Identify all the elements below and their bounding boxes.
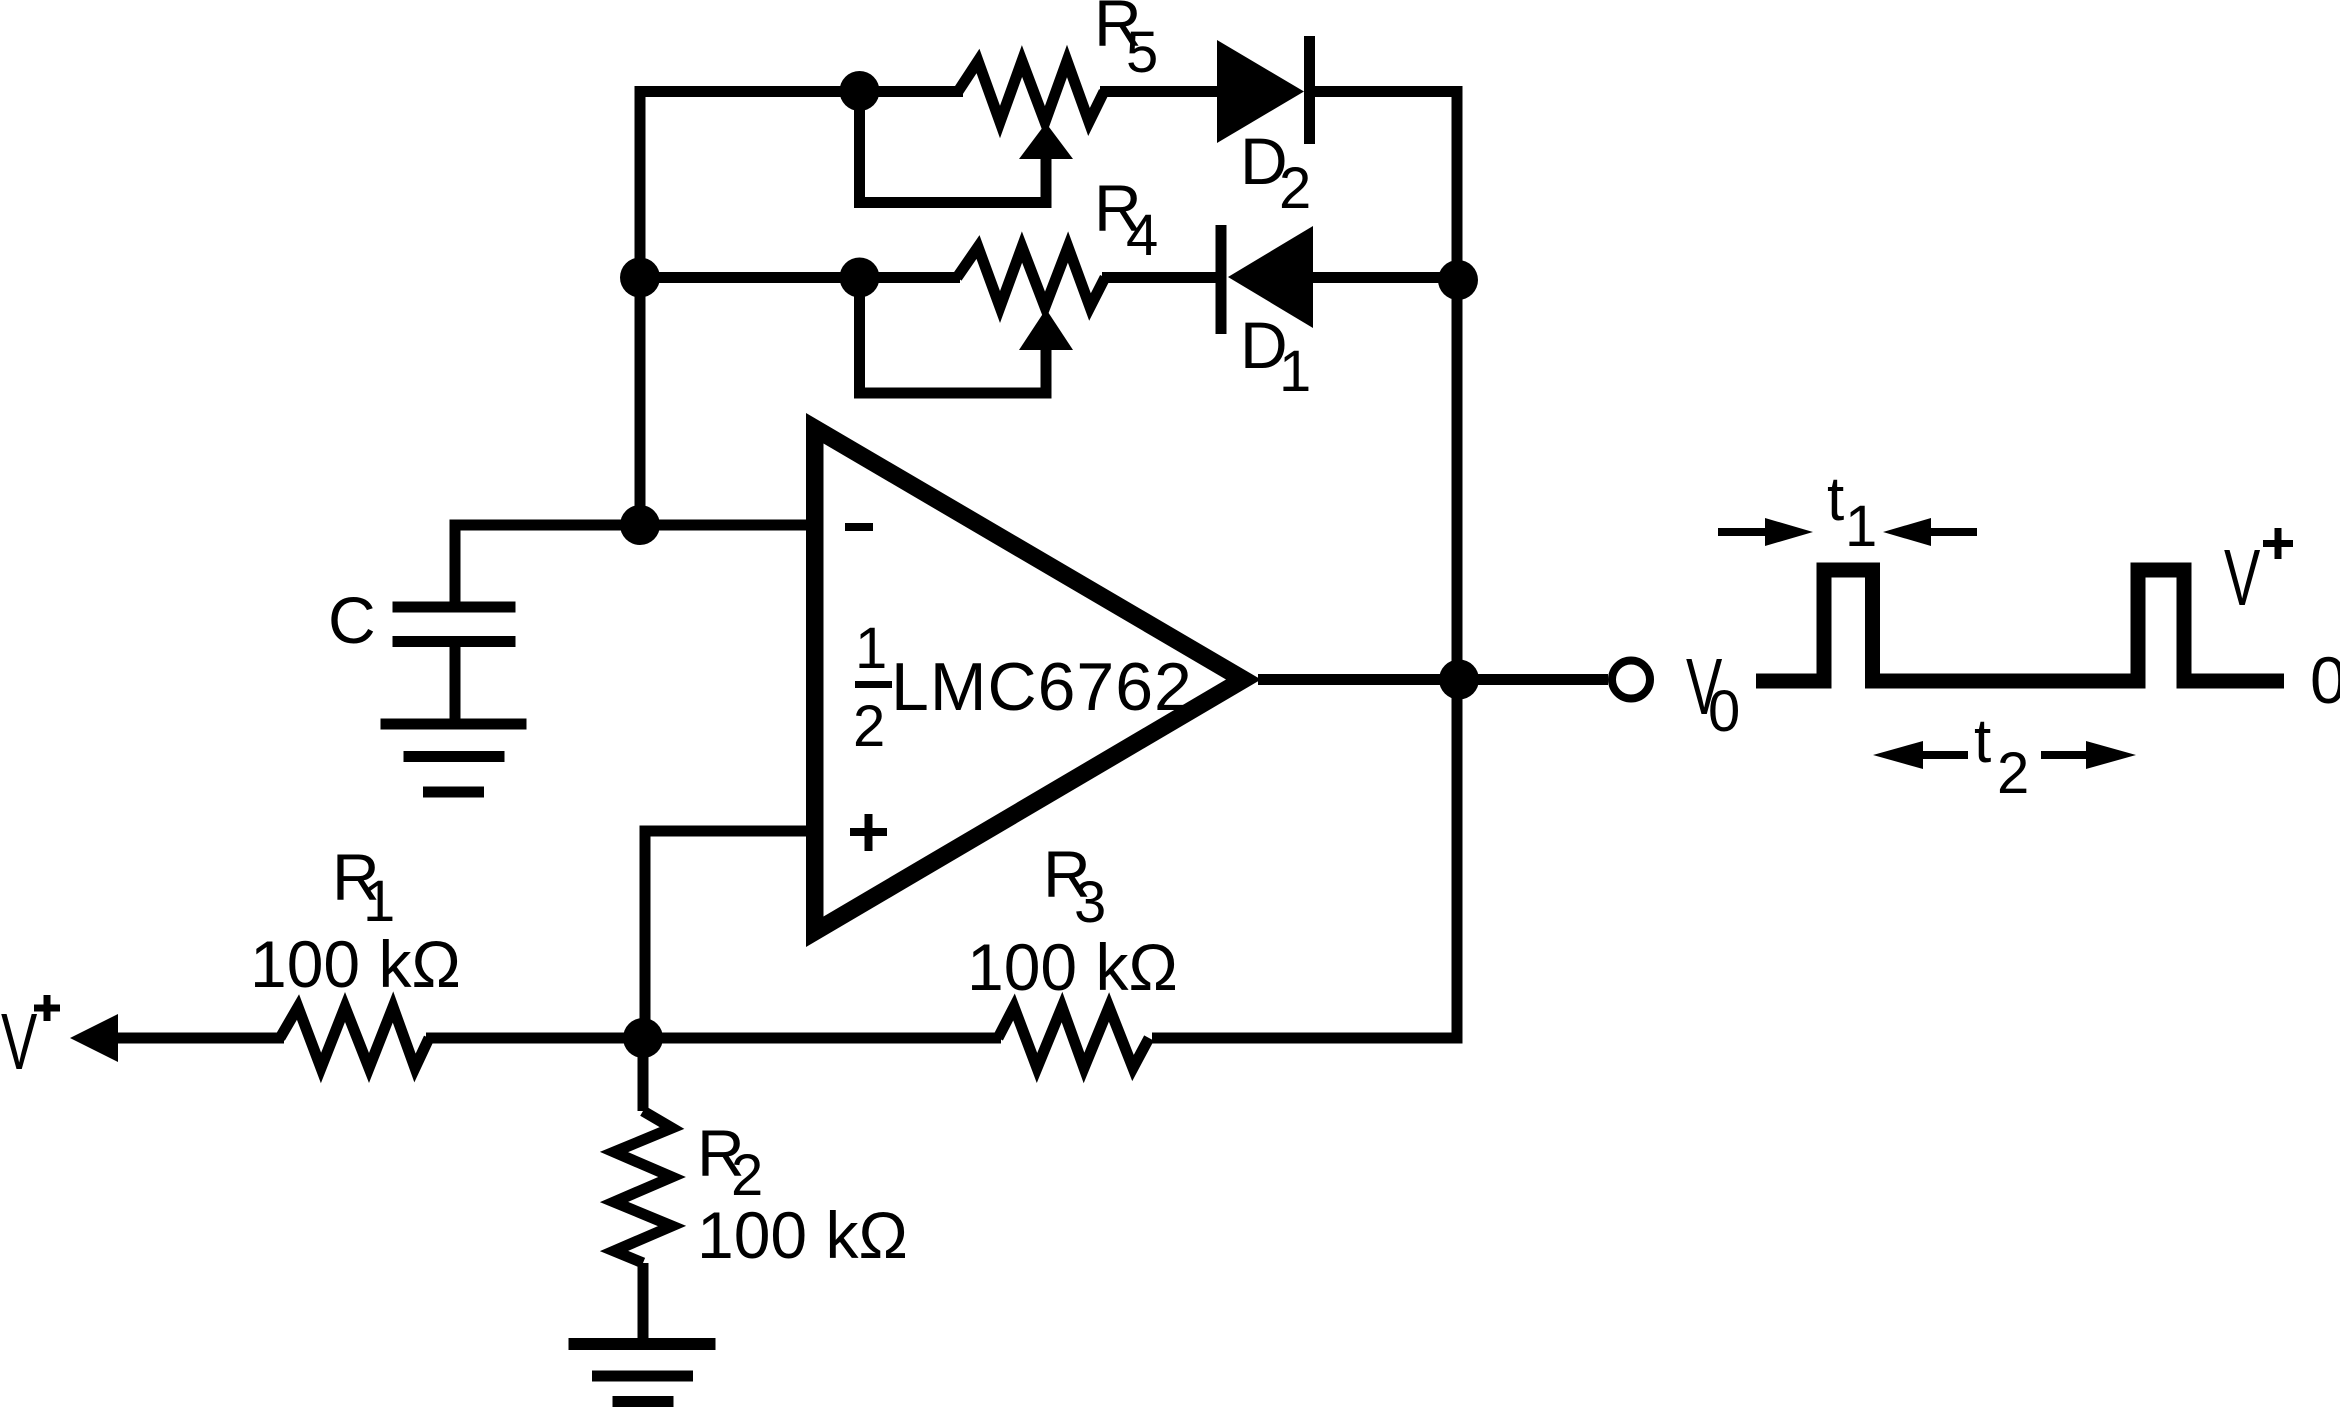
svg-text:2: 2 — [853, 694, 885, 759]
wire inverting input — [455, 525, 816, 602]
wire top rail between R5 and D2 — [1100, 86, 1219, 97]
wire R2 top stem — [638, 1038, 649, 1111]
t2 left arrow — [1873, 741, 1968, 769]
svg-text:LMC6762: LMC6762 — [891, 649, 1193, 725]
svg-text:100 kΩ: 100 kΩ — [697, 1198, 908, 1272]
output terminal circle — [1612, 661, 1650, 699]
wire R4 row between R4 and D1 — [1102, 272, 1217, 283]
wire R4 wiper loop — [860, 278, 1047, 394]
svg-text:1: 1 — [855, 616, 887, 681]
node dot top rail — [840, 71, 880, 111]
svg-text:V: V — [2224, 534, 2261, 623]
wire R4 row from D1 to right rail — [1310, 272, 1457, 283]
svg-text:C: C — [328, 583, 376, 657]
op-amp label 1/2 — [853, 616, 892, 759]
svg-text:3: 3 — [1074, 870, 1106, 935]
svg-text:100 kΩ: 100 kΩ — [967, 930, 1178, 1004]
op-amp U1 outer — [806, 413, 1261, 947]
ground below R2 — [569, 1338, 716, 1407]
resistor R2 — [614, 1111, 672, 1263]
node dot right rail R4 row — [1438, 260, 1478, 300]
node dot inverting input — [620, 505, 660, 545]
svg-text:V: V — [1, 998, 38, 1087]
svg-text:t: t — [1827, 465, 1844, 534]
svg-text:2: 2 — [1279, 156, 1311, 221]
wire output — [1258, 674, 1608, 685]
t1 right arrow — [1883, 518, 1977, 546]
capacitor C top plate — [393, 602, 516, 613]
resistor R3 — [998, 1007, 1149, 1068]
wiper arrow of R5 — [1019, 123, 1073, 159]
node dot output — [1439, 660, 1479, 700]
wire node to R3 — [426, 1033, 1001, 1044]
op-amp U1 inner — [824, 444, 1227, 917]
svg-text:t: t — [1974, 707, 1991, 776]
svg-text:0: 0 — [2310, 643, 2340, 717]
svg-text:1: 1 — [1279, 339, 1311, 404]
resistor R1 — [280, 1007, 429, 1068]
capacitor C bottom plate — [393, 636, 516, 647]
resistor R4 — [957, 247, 1105, 307]
node dot R4 wiper — [840, 258, 880, 298]
ground below C — [381, 719, 527, 798]
wiper arrow of R4 — [1019, 309, 1073, 350]
svg-text:1: 1 — [1845, 494, 1877, 559]
waveform trace — [1756, 570, 2284, 681]
resistor R5 — [958, 61, 1104, 122]
wire R4 row left — [640, 272, 960, 283]
wire R5 wiper loop — [860, 92, 1047, 203]
wire capacitor to ground — [450, 647, 461, 721]
svg-text:1: 1 — [363, 869, 395, 934]
t1 left arrow — [1718, 518, 1813, 546]
wire R2 bottom stem — [638, 1263, 649, 1338]
diode D2 — [1217, 36, 1315, 144]
svg-text:4: 4 — [1126, 203, 1158, 268]
wire top rail left segment — [640, 92, 963, 526]
op-amp minus sign — [845, 523, 873, 531]
node dot R1 R2 R3 junction — [623, 1018, 663, 1058]
svg-text:100 kΩ: 100 kΩ — [250, 927, 461, 1001]
diode D1 — [1216, 225, 1314, 334]
svg-text:2: 2 — [1997, 741, 2029, 806]
wire R1 row — [108, 1033, 284, 1044]
svg-text:5: 5 — [1126, 20, 1158, 85]
wire non-inverting input — [645, 831, 816, 1038]
node dot left rail R4 row — [620, 258, 660, 298]
wire top rail from D2 to right rail — [1152, 92, 1457, 1039]
op-amp plus sign — [850, 814, 887, 851]
t2 right arrow — [2041, 741, 2136, 769]
svg-text:0: 0 — [1708, 679, 1740, 744]
V+ arrow left — [70, 1014, 118, 1062]
